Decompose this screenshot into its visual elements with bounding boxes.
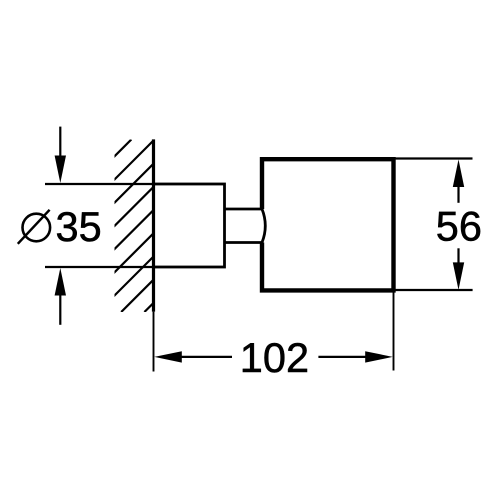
56 dim arrow down head (453, 262, 464, 290)
extension line 102 left (153, 312, 155, 372)
extension line diameter bottom (45, 266, 155, 268)
56 dim arrow up head (453, 160, 464, 188)
56 dim line lower segment (457, 248, 459, 270)
cup (holder body) outline (262, 159, 394, 290)
102 dim line left segment (175, 356, 232, 358)
diameter dim arrow down (head) (55, 156, 66, 184)
flange (wall rosette) (154, 184, 225, 267)
extension line 102 right (393, 293, 395, 371)
diameter symbol slash (18, 210, 50, 244)
extension line 56 bottom (396, 289, 473, 291)
stem top line (225, 208, 263, 211)
wall face line (152, 139, 155, 311)
svg-text:102: 102 (240, 334, 309, 381)
svg-text:56: 56 (436, 203, 482, 250)
diameter dim arrow up (tail) (59, 291, 61, 325)
wall hatching (0, 140, 317, 313)
diameter dim arrow up (head) (55, 268, 66, 296)
56 dim line upper segment (457, 180, 459, 203)
102 dim line right segment (318, 356, 375, 358)
102 dim arrow left head (154, 351, 182, 362)
stem-to-cup fillet arc (262, 209, 265, 243)
extension line 56 top (396, 157, 473, 159)
svg-text:35: 35 (56, 203, 102, 250)
diameter dim arrow down (tail) (59, 127, 61, 160)
diameter symbol circle (23, 214, 51, 242)
extension line diameter top (45, 183, 155, 185)
stem bottom line (225, 241, 263, 244)
102 dim arrow right head (365, 351, 393, 362)
